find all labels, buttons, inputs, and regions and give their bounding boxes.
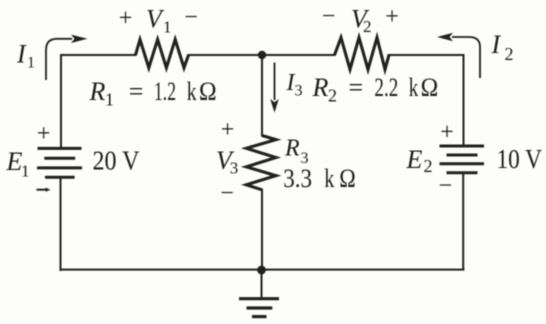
svg-text:R: R xyxy=(312,73,329,102)
svg-text:Ω: Ω xyxy=(421,73,439,102)
svg-text:3.3: 3.3 xyxy=(283,164,312,193)
svg-text:+: + xyxy=(119,5,133,31)
svg-text:=: = xyxy=(349,73,364,102)
svg-text:−: − xyxy=(439,173,453,199)
svg-text:1: 1 xyxy=(21,162,30,181)
svg-text:+: + xyxy=(37,121,51,147)
svg-text:+: + xyxy=(440,120,454,146)
svg-text:Ω: Ω xyxy=(339,164,356,193)
svg-text:k: k xyxy=(187,77,197,106)
svg-text:1: 1 xyxy=(163,18,172,37)
svg-text:20 V: 20 V xyxy=(93,145,140,176)
svg-text:1: 1 xyxy=(105,90,114,110)
svg-text:I: I xyxy=(16,39,27,68)
svg-text:−: − xyxy=(184,5,198,31)
svg-text:2.2: 2.2 xyxy=(374,73,398,102)
svg-text:1.2: 1.2 xyxy=(154,77,176,106)
svg-text:I: I xyxy=(491,30,502,59)
svg-text:1: 1 xyxy=(27,55,35,72)
svg-text:+: + xyxy=(385,4,399,30)
svg-text:R: R xyxy=(284,136,300,162)
svg-text:k: k xyxy=(324,164,334,193)
svg-text:−: − xyxy=(220,181,234,207)
svg-text:k: k xyxy=(409,73,419,102)
svg-text:E: E xyxy=(406,145,423,174)
svg-text:3: 3 xyxy=(295,83,303,100)
svg-text:10 V: 10 V xyxy=(497,143,543,174)
svg-text:Ω: Ω xyxy=(199,77,217,106)
svg-text:3: 3 xyxy=(230,159,239,178)
svg-text:R: R xyxy=(89,77,106,106)
svg-text:+: + xyxy=(221,117,235,143)
svg-text:=: = xyxy=(129,77,144,106)
svg-text:2: 2 xyxy=(505,44,514,64)
svg-text:2: 2 xyxy=(363,17,372,36)
svg-text:E: E xyxy=(6,147,23,176)
svg-text:−: − xyxy=(322,4,336,30)
svg-text:2: 2 xyxy=(328,86,337,106)
svg-text:2: 2 xyxy=(424,156,433,176)
